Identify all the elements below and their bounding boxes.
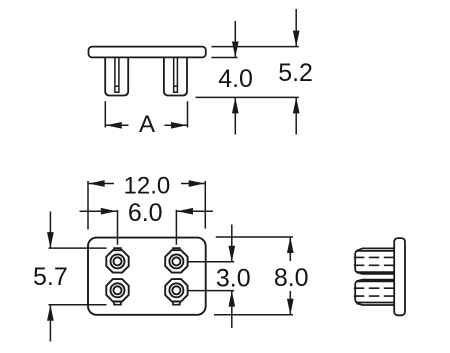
dim 3.0: upper arrow tail	[231, 225, 233, 262]
dim 5.7: lower arrowhead	[47, 305, 54, 321]
dim 4.0: top extension line (cap bottom)	[211, 57, 237, 59]
svg-text:5.2: 5.2	[278, 59, 313, 87]
dim 8.0: bottom extension line	[214, 314, 293, 316]
dim 3.0: lower extension line	[188, 290, 234, 292]
dim 4.0: upper arrowhead	[232, 42, 239, 58]
dim 6.0: left arrowhead	[101, 208, 117, 215]
side view: lower leg hidden line a	[354, 287, 394, 289]
nut bottom-right: bottom tab	[173, 301, 180, 304]
dim 4.0: lower arrow tail	[234, 97, 236, 134]
dim 8.0: lower arrowhead	[287, 299, 294, 315]
dim A: left extension line	[104, 101, 106, 127]
side view: cap flange plate	[394, 238, 405, 315]
nut top-left: top tab	[114, 248, 121, 250]
dim A: left arrowhead	[106, 122, 122, 129]
side view: upper leg top rib	[356, 248, 394, 250]
nut top-left: inner circle	[113, 257, 121, 265]
dim 4.0: upper arrow tail	[234, 21, 236, 58]
front view: left leg slot cross bar	[115, 85, 119, 87]
side view: lower leg bottom rib	[356, 303, 394, 305]
front view: right leg slot	[174, 58, 178, 93]
dim 8.0: top extension line	[216, 236, 293, 238]
dim 6.0: right extension line	[175, 210, 177, 245]
svg-text:6.0: 6.0	[128, 199, 163, 227]
plan view: base plate	[88, 238, 206, 315]
dim 5.7: upper arrowhead	[47, 232, 54, 248]
dim 12.0: right extension line	[204, 181, 206, 229]
dim 3.0: upper extension line	[188, 261, 234, 263]
nut bottom-left: octagon	[106, 279, 128, 301]
nut bottom-left: outer circle	[111, 283, 125, 297]
nut bottom-left: inner circle	[113, 286, 121, 294]
dim 6.0: left arrow tail	[80, 210, 117, 212]
dim 5.2: upper arrow tail	[295, 9, 297, 47]
nut top-left: outer circle	[111, 254, 125, 268]
nut top-left: octagon	[106, 250, 128, 272]
dim 5.2: lower arrowhead	[293, 97, 300, 113]
dim 8.0: lower arrow tail	[289, 291, 291, 315]
dim A: left arrow tail	[106, 124, 129, 126]
nut bottom-right: inner circle	[172, 286, 180, 294]
dim 12.0: left arrow tail	[89, 183, 114, 185]
dim 3.0: lower arrow tail	[231, 291, 233, 328]
svg-text:8.0: 8.0	[274, 264, 309, 292]
dim 3.0: lower arrowhead	[228, 291, 235, 307]
dim 8.0: upper arrow tail	[289, 237, 291, 261]
dim 3.0: upper arrowhead	[228, 246, 235, 262]
dim 4.0: lower arrowhead	[232, 97, 239, 113]
front view: left leg	[105, 57, 128, 95]
side view: upper leg hidden line a	[354, 256, 394, 258]
side view: lower leg top rib	[356, 280, 394, 282]
svg-text:12.0: 12.0	[124, 172, 171, 199]
nut bottom-right: octagon	[165, 279, 187, 301]
dim 12.0: left arrowhead	[89, 180, 105, 187]
dim 5.2: top extension line (cap top)	[211, 46, 298, 48]
svg-text:3.0: 3.0	[216, 264, 251, 292]
front view: right leg	[164, 57, 187, 95]
dim 8.0: upper arrowhead	[287, 237, 294, 253]
svg-text:4.0: 4.0	[218, 65, 253, 93]
nut bottom-right: outer circle	[169, 283, 183, 297]
dim 4.0/5.2: bottom extension line (legs bottom)	[196, 96, 299, 98]
dim A: right arrowhead	[171, 122, 187, 129]
dim 12.0: left extension line	[87, 181, 89, 230]
dim 12.0: right arrowhead	[189, 180, 205, 187]
nut top-right: top tab	[173, 248, 180, 250]
dim 5.7: lower extension line	[49, 304, 107, 306]
svg-text:5.7: 5.7	[33, 263, 68, 291]
dim A: right extension line	[187, 101, 189, 127]
dim 6.0: right arrowhead	[177, 208, 193, 215]
front view: left leg slot	[115, 58, 119, 93]
dim A: right arrow tail	[165, 124, 188, 126]
dim 5.7: upper arrow tail	[49, 212, 51, 249]
dim 5.2: lower arrow tail	[295, 97, 297, 134]
side view: upper leg hidden line b	[354, 264, 394, 266]
side view: lower leg hidden line b	[354, 295, 394, 297]
dim 5.7: lower arrow tail	[49, 305, 51, 342]
dim 6.0: right arrow tail	[177, 210, 213, 212]
nut top-right: outer circle	[169, 254, 183, 268]
side view: upper leg body	[355, 251, 394, 272]
dim 12.0: right arrow tail	[181, 183, 205, 185]
dim 5.2: upper arrowhead	[293, 31, 300, 47]
nut top-right: inner circle	[172, 257, 180, 265]
front view: right leg slot cross bar	[174, 85, 178, 87]
dim 5.7: upper extension line	[49, 247, 107, 249]
dim 6.0: left extension line	[117, 210, 119, 245]
side view: upper leg bottom rib	[356, 272, 394, 274]
nut bottom-left: bottom tab	[114, 301, 121, 304]
nut top-right: octagon	[165, 250, 187, 272]
svg-text:A: A	[139, 111, 155, 138]
front view: cap flange bar	[89, 47, 206, 58]
side view: lower leg body	[355, 281, 394, 302]
